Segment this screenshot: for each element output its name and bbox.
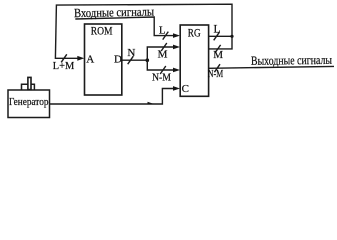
svg-text:N: N — [127, 47, 135, 59]
svg-text:ROM: ROM — [91, 25, 113, 37]
svg-text:D: D — [114, 53, 122, 65]
wire junction to RG N-M input — [147, 60, 173, 70]
svg-text:Генератор: Генератор — [9, 97, 49, 108]
register RG — [180, 25, 208, 96]
generator G1 — [8, 90, 50, 118]
svg-text:L: L — [159, 25, 166, 37]
wire generator to RG C input — [50, 89, 174, 105]
svg-text:N-M: N-M — [208, 69, 224, 80]
svg-text:A: A — [86, 54, 94, 66]
arrowhead into ROM A — [77, 56, 84, 61]
bus slash N — [128, 56, 134, 64]
junction L output joins vertical — [230, 35, 233, 38]
bus slash L input — [163, 32, 169, 40]
svg-text:Входные сигналы: Входные сигналы — [74, 5, 155, 21]
arrowhead mid wire — [148, 102, 155, 104]
wire feedback top: RG outputs L,M to ROM address input — [55, 4, 232, 58]
bus slash M output — [215, 45, 221, 53]
svg-text:M: M — [158, 49, 168, 61]
svg-text:RG: RG — [188, 28, 201, 40]
bus slash L+M — [61, 54, 67, 62]
wire output signals N-M — [209, 66, 334, 68]
svg-text:L+M: L+M — [53, 61, 75, 72]
bus slash N-M input — [160, 66, 166, 74]
arrowhead into RG C — [173, 86, 180, 91]
svg-text:C: C — [182, 83, 189, 95]
svg-text:Выходные сигналы: Выходные сигналы — [251, 53, 333, 68]
bus slash M input — [161, 43, 167, 51]
junction node — [146, 58, 150, 62]
arrowhead into RG N-M — [173, 68, 180, 73]
arrowhead into RG L — [173, 33, 180, 38]
wire ROM D output to junction — [122, 59, 148, 61]
ROM U1 — [85, 24, 122, 95]
pulse waveform icon — [22, 77, 35, 89]
svg-text:N-M: N-M — [152, 72, 172, 83]
arrowhead into RG M — [173, 45, 180, 50]
bus slash N-M output — [214, 64, 220, 72]
svg-text:L: L — [213, 24, 220, 36]
bus slash L output — [214, 32, 220, 40]
node: input signals label wire — [75, 17, 173, 36]
svg-text:M: M — [213, 49, 223, 61]
wire junction to RG M input — [147, 47, 173, 60]
